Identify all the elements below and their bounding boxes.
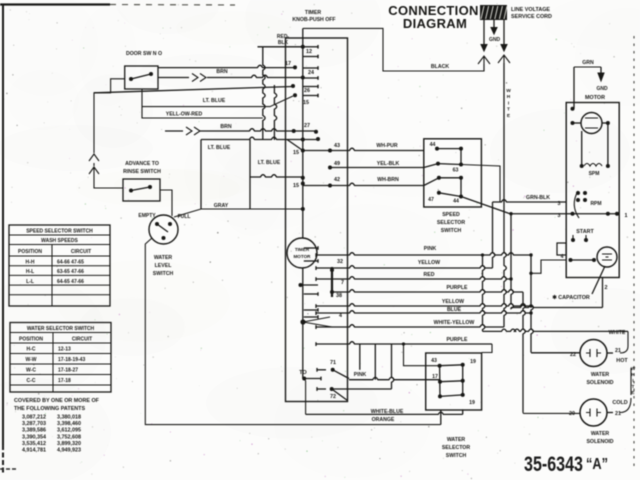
T2 diagonal bbox=[332, 389, 348, 400]
wire PURPLE2 bbox=[315, 342, 317, 346]
motor GRN wire bbox=[574, 66, 601, 68]
timer motor circle bbox=[287, 238, 317, 268]
start capacitor circle bbox=[597, 247, 617, 267]
wire BRN top bbox=[158, 65, 295, 67]
wire to terminal 26 bbox=[142, 96, 293, 107]
svg-text:26: 26 bbox=[304, 88, 310, 94]
advance switch contacts bbox=[129, 189, 133, 193]
wire lt-blue loop top bbox=[201, 137, 318, 139]
svg-text:WATER: WATER bbox=[591, 372, 610, 378]
svg-text:1: 1 bbox=[625, 213, 628, 219]
svg-text:17-18-27: 17-18-27 bbox=[58, 367, 78, 373]
motor main winding bbox=[581, 113, 602, 134]
SSS wire in YEL-BLK bbox=[424, 164, 438, 168]
contact diagonal to 15 bbox=[287, 140, 303, 151]
svg-text:RED: RED bbox=[424, 272, 435, 278]
junction dots right bus bbox=[509, 277, 512, 280]
svg-text:3,535,412: 3,535,412 bbox=[22, 441, 46, 447]
svg-text:4: 4 bbox=[561, 254, 564, 260]
svg-text:17-18-19-43: 17-18-19-43 bbox=[58, 357, 85, 363]
terminal TO bbox=[302, 377, 306, 381]
svg-text:SOLENOID: SOLENOID bbox=[586, 380, 613, 386]
wire BLUE bbox=[315, 311, 317, 315]
timer stub bbox=[303, 46, 318, 48]
svg-text:W-C: W-C bbox=[26, 367, 36, 373]
terminal T2 bbox=[330, 387, 334, 391]
hot solenoid circle bbox=[580, 340, 607, 367]
svg-text:42: 42 bbox=[334, 177, 340, 183]
svg-text:SPM: SPM bbox=[589, 171, 600, 177]
loop vertical x250 bbox=[249, 140, 251, 210]
svg-text:TIMER: TIMER bbox=[295, 247, 310, 252]
svg-text:T: T bbox=[507, 107, 510, 113]
motor contact cluster bbox=[576, 191, 580, 195]
wire WHITE to hot21 bbox=[483, 329, 629, 331]
wire motor3 feed bbox=[511, 213, 566, 215]
wire GRN-BLK bbox=[493, 200, 567, 202]
svg-text:W: W bbox=[506, 88, 511, 94]
wire purple2 drop to WSS corner bbox=[482, 344, 492, 353]
svg-text:4: 4 bbox=[339, 313, 342, 319]
timer box bbox=[286, 38, 348, 402]
svg-text:POSITION: POSITION bbox=[19, 337, 43, 343]
svg-text:WHITE-YELLOW: WHITE-YELLOW bbox=[434, 320, 475, 326]
svg-text:LT. BLUE: LT. BLUE bbox=[203, 98, 226, 104]
svg-text:SWITCH: SWITCH bbox=[153, 271, 174, 277]
svg-text:WHITE: WHITE bbox=[609, 330, 626, 336]
bus cap feed bbox=[511, 214, 513, 309]
WSS row2 bbox=[440, 380, 463, 383]
table speed selector frame bbox=[9, 225, 110, 306]
vertical yellow drop bbox=[493, 202, 495, 268]
wire PURPLE bbox=[331, 290, 333, 294]
motor start contacts top bbox=[571, 238, 575, 242]
svg-text:GRN: GRN bbox=[582, 60, 594, 66]
connector chevron adv1 bbox=[89, 154, 99, 166]
svg-text:27: 27 bbox=[304, 123, 310, 129]
wire capacitor-2 bbox=[602, 278, 604, 308]
arrowhead lead M bbox=[491, 28, 497, 35]
T1 stub bbox=[317, 369, 326, 371]
svg-text:BLUE: BLUE bbox=[447, 307, 462, 313]
bus x359 down bbox=[359, 344, 361, 370]
timer spine bbox=[302, 28, 304, 238]
SSS contact D bbox=[436, 162, 440, 166]
svg-text:H: H bbox=[507, 94, 511, 100]
cold solenoid circle bbox=[580, 399, 607, 426]
wire cord lead R bbox=[503, 20, 505, 44]
vertical bus x274.4 bbox=[274, 85, 276, 140]
svg-text:PURPLE: PURPLE bbox=[446, 337, 468, 343]
SSS exit diagonal bbox=[461, 197, 510, 214]
svg-text:W-W: W-W bbox=[25, 357, 36, 363]
svg-text:3,612,095: 3,612,095 bbox=[57, 428, 81, 434]
svg-text:RINSE SWITCH: RINSE SWITCH bbox=[123, 169, 161, 175]
wire PINK bbox=[315, 253, 317, 257]
terminal 17 bbox=[293, 65, 297, 69]
wire BLACK timer-to-cord bbox=[303, 28, 484, 71]
page border right bbox=[633, 36, 635, 468]
SSS ladder right 2 bbox=[460, 178, 462, 197]
svg-text:63: 63 bbox=[453, 168, 459, 174]
arrowhead lead L bbox=[481, 45, 487, 52]
timer stub bbox=[303, 77, 318, 79]
timer lower dot bbox=[299, 283, 303, 287]
timer switch bar bbox=[331, 267, 333, 297]
motor winding vert links bbox=[607, 123, 609, 166]
svg-text:WATER SELECTOR SWITCH: WATER SELECTOR SWITCH bbox=[27, 326, 95, 332]
wire GRAY bbox=[174, 209, 303, 217]
wire cold21 right bbox=[607, 412, 613, 414]
SSS contact 63 row bbox=[437, 176, 441, 180]
terminal 15 y150 bbox=[301, 149, 305, 153]
WSS contact 43 bbox=[438, 364, 442, 368]
svg-text:MOTOR: MOTOR bbox=[293, 254, 311, 259]
water level switch circle bbox=[149, 215, 178, 244]
WSS row3 bbox=[440, 395, 463, 397]
svg-text:TIMER: TIMER bbox=[305, 10, 321, 16]
wire RED bbox=[315, 277, 317, 281]
svg-text:20: 20 bbox=[569, 411, 575, 417]
loop vertical x201 bbox=[200, 140, 202, 210]
svg-text:15: 15 bbox=[293, 183, 299, 189]
door switch contacts bbox=[129, 77, 133, 81]
svg-text:49: 49 bbox=[334, 161, 340, 167]
svg-text:SPEED: SPEED bbox=[442, 212, 460, 218]
wire terminal12 corner bbox=[258, 46, 303, 48]
wire WHITE-YELLOW bbox=[315, 325, 317, 329]
svg-text:32: 32 bbox=[337, 259, 343, 265]
svg-text:64-65 47-66: 64-65 47-66 bbox=[57, 279, 84, 285]
wire hot22 bbox=[531, 352, 580, 354]
svg-text:YELLOW: YELLOW bbox=[442, 299, 464, 305]
timer fan blob bbox=[300, 319, 305, 324]
svg-text:3,398,460: 3,398,460 bbox=[57, 421, 81, 427]
page border left bbox=[2, 4, 4, 445]
svg-text:3,287,703: 3,287,703 bbox=[22, 421, 46, 427]
terminal T1 bbox=[331, 368, 335, 372]
svg-text:PURPLE: PURPLE bbox=[446, 285, 468, 291]
terminal 24 bbox=[301, 76, 305, 80]
timer stub bbox=[303, 67, 318, 69]
svg-text:START: START bbox=[576, 229, 594, 235]
svg-text:GND: GND bbox=[489, 37, 501, 43]
wire LT.BLUE 15 bbox=[250, 175, 303, 177]
motor top corner dot bbox=[571, 107, 575, 111]
svg-text:21: 21 bbox=[615, 411, 621, 417]
svg-text:SWITCH: SWITCH bbox=[441, 228, 462, 234]
svg-text:DOOR SW N O: DOOR SW N O bbox=[126, 51, 162, 57]
svg-text:H-L: H-L bbox=[26, 269, 34, 275]
junction dot WH-BRN bbox=[328, 184, 332, 188]
svg-text:3,087,212: 3,087,212 bbox=[22, 415, 46, 421]
SSS contact 47 bbox=[437, 191, 441, 195]
svg-text:38: 38 bbox=[336, 293, 342, 299]
svg-text:PINK: PINK bbox=[424, 246, 437, 252]
terminal dot y139 bbox=[316, 137, 320, 141]
junction dot WH-PUR bbox=[328, 149, 332, 153]
wire cord lead L bbox=[483, 20, 485, 44]
door switch box bbox=[125, 66, 158, 89]
bus x391 down bbox=[392, 344, 394, 389]
WSS vert links bbox=[439, 366, 441, 397]
motor centrifugal arc bbox=[574, 191, 579, 218]
wire capacitor pointer bbox=[592, 266, 605, 294]
svg-text:44: 44 bbox=[430, 142, 436, 148]
svg-text:BLK: BLK bbox=[278, 40, 289, 46]
svg-text:WHITE-BLUE: WHITE-BLUE bbox=[371, 409, 404, 415]
wire cold20 bbox=[523, 412, 580, 413]
svg-text:SOLENOID: SOLENOID bbox=[586, 439, 613, 445]
svg-text:24: 24 bbox=[308, 70, 314, 76]
SSS contact top right bbox=[459, 147, 463, 151]
timer stub bbox=[303, 86, 318, 88]
wire TO down bbox=[304, 379, 305, 415]
SSS wire in WH-BRN bbox=[424, 178, 439, 186]
svg-text:SERVICE CORD: SERVICE CORD bbox=[511, 14, 552, 20]
svg-text:71: 71 bbox=[330, 360, 336, 366]
table water selector frame bbox=[10, 323, 111, 393]
svg-text:3,899,320: 3,899,320 bbox=[57, 441, 81, 447]
motor winding SPM bbox=[580, 164, 584, 168]
terminal 27 bbox=[314, 130, 318, 134]
svg-text:CIRCUIT: CIRCUIT bbox=[71, 249, 91, 255]
svg-text:15: 15 bbox=[303, 100, 309, 106]
svg-text:WASH SPEEDS: WASH SPEEDS bbox=[41, 238, 78, 244]
SSS ladder right 1 bbox=[460, 149, 462, 165]
wire WHITE service vertical bbox=[504, 63, 506, 327]
svg-text:4,914,781: 4,914,781 bbox=[22, 448, 46, 454]
arrowhead motor gnd bbox=[598, 73, 604, 81]
advance switch box bbox=[123, 179, 160, 201]
svg-text:15: 15 bbox=[293, 150, 299, 156]
svg-text:43: 43 bbox=[334, 143, 340, 149]
svg-text:ADVANCE TO: ADVANCE TO bbox=[125, 161, 159, 167]
wire WHITE-BLUE bbox=[306, 412, 463, 414]
svg-text:43: 43 bbox=[431, 358, 437, 364]
speed selector box bbox=[424, 139, 482, 207]
svg-text:44: 44 bbox=[453, 199, 459, 205]
connector chevron L bbox=[478, 56, 490, 71]
T2 stub bbox=[317, 388, 326, 390]
svg-text:2: 2 bbox=[605, 285, 608, 291]
svg-text:19: 19 bbox=[470, 359, 476, 365]
svg-text:✱ CAPACITOR: ✱ CAPACITOR bbox=[552, 295, 590, 301]
timer stub bbox=[303, 56, 318, 58]
timer stub bbox=[303, 95, 318, 97]
arrowhead lead R bbox=[501, 45, 507, 52]
svg-text:YEL-BLK: YEL-BLK bbox=[377, 161, 400, 167]
svg-text:LT. BLUE: LT. BLUE bbox=[258, 160, 281, 166]
svg-text:22: 22 bbox=[570, 352, 576, 358]
WSS bottom drop bbox=[440, 410, 442, 425]
svg-text:H-C: H-C bbox=[27, 346, 36, 352]
vertical bus x262.8 bbox=[263, 47, 265, 140]
terminal 26 bbox=[293, 93, 297, 97]
svg-text:LEVEL: LEVEL bbox=[155, 263, 173, 269]
terminal 15 y183 bbox=[301, 182, 305, 186]
connector chevron adv2 bbox=[89, 167, 123, 188]
svg-text:TO: TO bbox=[299, 370, 306, 376]
terminal 12 bbox=[301, 45, 305, 49]
wire WH-BRN bbox=[303, 183, 424, 185]
svg-text:SELECTOR: SELECTOR bbox=[437, 220, 465, 226]
T1 diagonal bbox=[333, 370, 349, 379]
svg-text:E: E bbox=[631, 390, 634, 395]
WSS row1 bbox=[440, 364, 463, 367]
svg-text:3,380,018: 3,380,018 bbox=[57, 415, 81, 421]
wire BRN with connectors bbox=[158, 77, 189, 79]
svg-text:YELLOW: YELLOW bbox=[418, 260, 440, 266]
wire start-4 feed bbox=[531, 260, 566, 273]
connector chevron R bbox=[498, 55, 510, 63]
svg-text:GND: GND bbox=[596, 86, 608, 92]
svg-text:35-6343: 35-6343 bbox=[524, 453, 583, 476]
motor start row bbox=[569, 258, 573, 262]
svg-text:7: 7 bbox=[341, 280, 344, 286]
svg-text:3,389,586: 3,389,586 bbox=[22, 428, 46, 434]
wire LT.BLUE upper bbox=[94, 87, 293, 93]
timer spine lower bbox=[302, 268, 304, 379]
wire YELLOW bbox=[315, 266, 317, 270]
svg-text:GRN-BLK: GRN-BLK bbox=[526, 195, 550, 201]
svg-text:WATER: WATER bbox=[591, 431, 610, 437]
bus PURPLE down bbox=[523, 292, 525, 412]
svg-text:WATER: WATER bbox=[447, 437, 466, 443]
svg-text:W: W bbox=[631, 366, 636, 371]
svg-text:SPEED SELECTOR SWITCH: SPEED SELECTOR SWITCH bbox=[26, 229, 93, 235]
svg-text:DIAGRAM: DIAGRAM bbox=[403, 16, 467, 31]
svg-text:COVERED BY ONE OR MORE OF: COVERED BY ONE OR MORE OF bbox=[14, 398, 100, 404]
motor tab box bbox=[557, 243, 566, 255]
motor box bbox=[566, 103, 619, 278]
terminal dot y86 bbox=[291, 84, 295, 88]
svg-text:17-18: 17-18 bbox=[58, 378, 71, 384]
svg-text:POSITION: POSITION bbox=[18, 249, 42, 255]
line voltage service cord block bbox=[480, 5, 507, 20]
svg-text:RPM: RPM bbox=[590, 201, 601, 207]
bus hot feed bbox=[531, 255, 533, 353]
bus x375 down bbox=[374, 344, 376, 380]
svg-text:BRN: BRN bbox=[220, 124, 231, 130]
wire YELLOW2 bbox=[315, 304, 317, 308]
wire WL to orange drop bbox=[145, 238, 441, 425]
svg-text:LT. BLUE: LT. BLUE bbox=[208, 145, 231, 151]
svg-text:EMPTY: EMPTY bbox=[138, 213, 156, 219]
svg-text:3,752,608: 3,752,608 bbox=[57, 434, 81, 440]
svg-text:MOTOR: MOTOR bbox=[585, 95, 605, 101]
svg-text:THE FOLLOWING PATENTS: THE FOLLOWING PATENTS bbox=[14, 406, 85, 412]
wire YEL-BLK bbox=[330, 167, 424, 169]
svg-text:12-13: 12-13 bbox=[58, 346, 71, 352]
svg-text:C-C: C-C bbox=[27, 378, 36, 384]
svg-text:3: 3 bbox=[558, 201, 561, 207]
svg-text:3,390,354: 3,390,354 bbox=[22, 434, 46, 440]
svg-text:BLACK: BLACK bbox=[431, 64, 449, 70]
WSS contact 17 bbox=[438, 380, 442, 384]
svg-text:YELL-OW-RED: YELL-OW-RED bbox=[166, 112, 203, 118]
svg-text:63-65 47-66: 63-65 47-66 bbox=[57, 269, 84, 275]
svg-text:L-L: L-L bbox=[26, 279, 34, 285]
svg-text:I: I bbox=[632, 378, 633, 383]
wire T2 out bbox=[332, 388, 392, 390]
svg-text:CIRCUIT: CIRCUIT bbox=[72, 337, 92, 343]
svg-text:17: 17 bbox=[432, 374, 438, 380]
wire WH-PUR bbox=[303, 148, 424, 150]
wire door-sw left loop bbox=[94, 79, 125, 153]
junction dot YEL-BLK bbox=[328, 166, 332, 170]
svg-text:19: 19 bbox=[469, 400, 475, 406]
wire SSS out bbox=[461, 165, 500, 203]
svg-text:H-H: H-H bbox=[26, 260, 35, 266]
svg-text:PINK: PINK bbox=[354, 372, 367, 378]
page border top bbox=[0, 3, 110, 5]
svg-text:SWITCH: SWITCH bbox=[446, 453, 467, 459]
svg-text:LINE VOLTAGE: LINE VOLTAGE bbox=[511, 7, 550, 13]
svg-text:BRN: BRN bbox=[216, 69, 227, 75]
WL switch contacts bbox=[155, 222, 159, 226]
svg-text:72: 72 bbox=[330, 394, 336, 400]
water selector box bbox=[426, 353, 482, 410]
wire cord lead M bbox=[493, 20, 495, 27]
svg-text:12: 12 bbox=[306, 49, 312, 55]
svg-text:ORANGE: ORANGE bbox=[372, 417, 395, 423]
svg-text:COLD: COLD bbox=[612, 400, 627, 406]
svg-text:17: 17 bbox=[285, 61, 291, 67]
motor row line bbox=[566, 213, 619, 215]
wire BRN 2 lower bbox=[165, 130, 183, 132]
wire PINK2 bbox=[349, 377, 440, 379]
svg-text:4,949,923: 4,949,923 bbox=[57, 448, 81, 454]
SSS contact 44 top bbox=[435, 147, 439, 151]
wire YELLOW-RED bbox=[142, 89, 263, 118]
WSS contact 19 bbox=[461, 363, 465, 367]
svg-text:47: 47 bbox=[428, 197, 434, 203]
svg-text:WATER: WATER bbox=[154, 255, 173, 261]
svg-text:T: T bbox=[632, 384, 635, 389]
svg-text:WH-PUR: WH-PUR bbox=[376, 143, 398, 149]
svg-text:WH-BRN: WH-BRN bbox=[377, 177, 399, 183]
bus PINK down bbox=[483, 255, 485, 331]
page border bottom-left fragment bbox=[0, 468, 16, 470]
wire white down right bbox=[620, 331, 628, 353]
svg-text:“A”: “A” bbox=[586, 456, 608, 473]
timer mid terminals bbox=[304, 247, 318, 249]
wire hot21 right bbox=[607, 352, 613, 354]
wire hot to cold right bbox=[630, 368, 632, 395]
svg-text:GRAY: GRAY bbox=[214, 203, 229, 209]
wire advance to WL switch bbox=[160, 190, 172, 216]
svg-text:KNOB-PUSH OFF: KNOB-PUSH OFF bbox=[292, 17, 335, 23]
svg-text:64-66 47-65: 64-66 47-65 bbox=[57, 260, 84, 266]
svg-text:SELECTOR: SELECTOR bbox=[442, 445, 470, 451]
svg-text:HOT: HOT bbox=[616, 358, 628, 364]
